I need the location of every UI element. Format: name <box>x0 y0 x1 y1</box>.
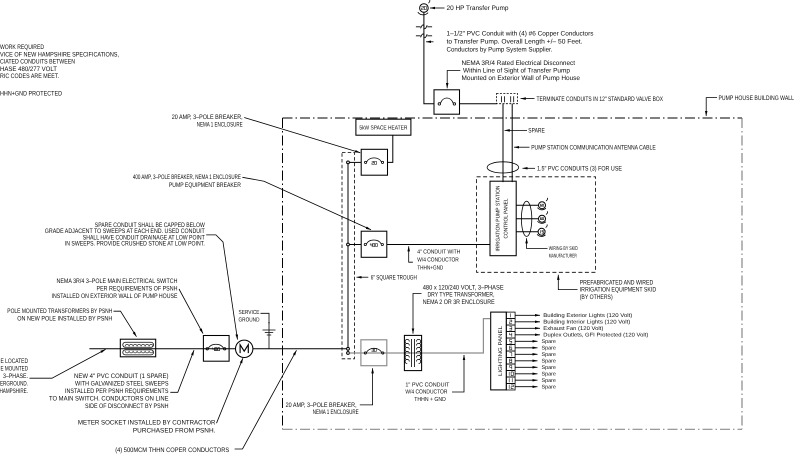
wires panel to pump motors <box>516 205 538 232</box>
label NEW 4" PVC CONDUIT note <box>49 350 194 410</box>
label utility service (cut off at left edge) <box>0 349 106 394</box>
svg-text:IRRIGATION PUMP STATION: IRRIGATION PUMP STATION <box>495 185 501 251</box>
feeder bus in trough <box>347 164 349 352</box>
svg-text:PUMP HOUSE BUILDING WALL: PUMP HOUSE BUILDING WALL <box>719 95 795 102</box>
label WIRING BY SKID MANUFACTURER <box>527 238 578 259</box>
irrigation equipment skid (dashed box) <box>477 177 596 272</box>
svg-text:E LOCATED: E LOCATED <box>1 358 29 365</box>
svg-text:PUMP EQUIPMENT BREAKER: PUMP EQUIPMENT BREAKER <box>169 182 241 189</box>
svg-text:6" SQUARE TROUGH: 6" SQUARE TROUGH <box>371 274 417 281</box>
svg-text:Exhaust Fan (120 Volt): Exhaust Fan (120 Volt) <box>543 326 603 332</box>
svg-text:NEMA 3R/4 Rated Electrical Dis: NEMA 3R/4 Rated Electrical Disconnect <box>462 60 576 67</box>
circuit 5 wire and label (spare) <box>515 339 556 345</box>
conduit break symbol (lower) <box>416 34 432 38</box>
breaker CB1 20A 3-pole <box>361 149 387 175</box>
svg-text:NEMA 3R/4 3–POLE MAIN ELECTRIC: NEMA 3R/4 3–POLE MAIN ELECTRICAL SWITCH <box>57 278 178 285</box>
svg-text:SIDE OF DISCONNECT BY PSNH: SIDE OF DISCONNECT BY PSNH <box>85 403 169 410</box>
circuit 7 wire and label (spare) <box>515 352 556 358</box>
label 6" SQUARE TROUGH <box>357 274 418 281</box>
svg-text:VICE OF NEW HAMPSHIRE SPECIFIC: VICE OF NEW HAMPSHIRE SPECIFICATIONS, <box>0 51 119 58</box>
label NEMA 3R/4 3-POLE MAIN ELECTRICAL SWITCH <box>52 278 204 334</box>
service ground <box>239 309 276 349</box>
label TERMINATE CONDUITS <box>521 96 664 103</box>
circuit breaker cells 1-12 <box>506 312 515 390</box>
label 1-1/2" PVC conduit note <box>426 31 594 54</box>
svg-text:LIGHTING PANEL: LIGHTING PANEL <box>498 326 504 376</box>
svg-text:Within Line of Sight of Transf: Within Line of Sight of Transfer Pump <box>463 68 570 75</box>
svg-text:NEW 4" PVC CONDUIT (1 SPARE): NEW 4" PVC CONDUIT (1 SPARE) <box>74 373 169 380</box>
pole mounted transformer bank T1 <box>120 339 155 357</box>
svg-text:HASE 480/277 VOLT: HASE 480/277 VOLT <box>0 66 57 73</box>
conduit break symbol (upper) <box>416 25 432 29</box>
svg-text:Spare: Spare <box>542 359 556 365</box>
svg-text:PER REQUIREMENTS OF PSNH: PER REQUIREMENTS OF PSNH <box>97 286 178 293</box>
svg-text:NEMA 1 ENCLOSURE: NEMA 1 ENCLOSURE <box>197 122 243 129</box>
pump motor M1 (60 HP) <box>538 198 548 210</box>
svg-text:SPARE: SPARE <box>528 128 545 135</box>
label 20 HP Transfer Pump <box>430 5 509 12</box>
label 1" PVC conduit <box>405 355 464 403</box>
label 4" conduit with W/4 conductor <box>409 246 461 271</box>
circuit 6 wire and label (spare) <box>515 346 556 352</box>
svg-text:Spare: Spare <box>542 352 556 358</box>
svg-text:Building Exterior Lights (120: Building Exterior Lights (120 Volt) <box>543 313 632 319</box>
svg-text:THHN+GND: THHN+GND <box>417 264 443 271</box>
svg-text:480 x 120/240 VOLT, 3–PHASE: 480 x 120/240 VOLT, 3–PHASE <box>423 284 505 291</box>
main service line from utility <box>89 348 346 350</box>
svg-text:POLE MOUNTED TRANSFORMERS BY P: POLE MOUNTED TRANSFORMERS BY PSNH <box>7 308 112 315</box>
valve box (dashed, 12" standard) <box>497 94 518 104</box>
svg-text:20 HP Transfer Pump: 20 HP Transfer Pump <box>447 5 509 12</box>
conduit pair down to control panel <box>502 104 504 182</box>
svg-text:CIATED CONDUITS BETWEEN: CIATED CONDUITS BETWEEN <box>0 59 75 66</box>
wire 400A breaker to control panel <box>387 244 490 246</box>
circuit 12 wire and label (spare) <box>515 385 556 391</box>
svg-text:1.5" PVC CONDUITS (3) FOR USE: 1.5" PVC CONDUITS (3) FOR USE <box>537 166 623 173</box>
svg-text:1" PVC CONDUIT: 1" PVC CONDUIT <box>405 381 449 388</box>
label NEMA 3R/4 rated electrical disconnect <box>447 60 580 88</box>
disconnect switch DS1 <box>434 90 460 114</box>
breaker CB2 400A 3-pole pump equipment breaker <box>361 231 387 257</box>
svg-text:Spare: Spare <box>542 339 556 345</box>
label 20 AMP 3-POLE BREAKER (top) <box>172 114 361 153</box>
terminal node at 20A tap <box>347 161 350 164</box>
circuit 10 wire and label (spare) <box>515 372 556 378</box>
svg-text:PUMP STATION COMMUNICATION ANT: PUMP STATION COMMUNICATION ANTENNA CABLE <box>531 144 656 151</box>
svg-text:NEMA 2 OR 3R ENCLOSURE: NEMA 2 OR 3R ENCLOSURE <box>423 299 496 306</box>
label 480 x 120/240 VOLT transformer <box>413 284 504 333</box>
svg-text:Building Interior Lights (120: Building Interior Lights (120 Volt) <box>543 320 630 326</box>
svg-text:HHN+GND PROTECTED: HHN+GND PROTECTED <box>0 90 62 97</box>
svg-text:NEMA 1 ENCLOSURE: NEMA 1 ENCLOSURE <box>313 409 359 416</box>
label antenna cable <box>514 144 656 151</box>
wire feeder tap to 20A breaker <box>349 161 361 163</box>
svg-text:3–PHASE.: 3–PHASE. <box>3 373 28 380</box>
label 400 AMP 3-POLE BREAKER <box>133 174 371 230</box>
svg-text:PREFABRICATED AND WIRED: PREFABRICATED AND WIRED <box>580 279 654 286</box>
svg-text:Spare: Spare <box>542 372 556 378</box>
svg-text:Spare: Spare <box>542 346 556 352</box>
circuit 3 wire and label <box>515 326 603 332</box>
wire heater to 20A breaker <box>388 135 393 162</box>
svg-text:RIC CODES ARE MEET.: RIC CODES ARE MEET. <box>0 73 59 80</box>
node feeder to 30A tap <box>347 352 350 355</box>
transfer pump P1 (20 HP) <box>418 0 430 15</box>
terminal node at 400A tap <box>347 243 350 246</box>
circuit 4 wire and label <box>515 333 648 339</box>
pump motor M3 (15 HP) <box>537 224 547 236</box>
svg-text:INSTALLED PER PSNH REQUIREMENT: INSTALLED PER PSNH REQUIREMENTS <box>65 388 169 395</box>
6 inch square trough (dashed) <box>342 152 354 358</box>
svg-text:METER SOCKET INSTALLED BY CONT: METER SOCKET INSTALLED BY CONTRACTOR <box>78 420 216 427</box>
svg-text:WORK REQUIRED: WORK REQUIRED <box>0 44 44 51</box>
svg-text:TO MAIN SWITCH. CONDUCTORS ON: TO MAIN SWITCH. CONDUCTORS ON LINE <box>49 396 169 403</box>
circuit 9 wire and label (spare) <box>515 365 556 371</box>
svg-text:Duplex Outlets, GFI Protected: Duplex Outlets, GFI Protected (120 Volt) <box>543 333 648 339</box>
svg-text:Mounted on Exterior Wall of Pu: Mounted on Exterior Wall of Pump House <box>462 75 581 82</box>
svg-text:MANUFACTURER: MANUFACTURER <box>549 253 577 259</box>
svg-text:ON NEW POLE INSTALLED BY PSNH: ON NEW POLE INSTALLED BY PSNH <box>17 315 112 322</box>
breaker CB3 30A (gray box) <box>361 340 387 366</box>
pump house building wall (dash-dot outline) <box>283 118 743 429</box>
conduit grouping ellipse <box>487 162 519 173</box>
svg-text:IN SWEEPS. PROVIDE CRUSHED ST: IN SWEEPS. PROVIDE CRUSHED STONE AT LOW … <box>65 241 205 248</box>
meter M <box>236 340 253 357</box>
circuit 8 wire and label (spare) <box>515 359 556 365</box>
svg-text:5kW SPACE HEATER: 5kW SPACE HEATER <box>359 125 407 132</box>
svg-text:CONTROL PANEL: CONTROL PANEL <box>504 199 510 239</box>
label PREFABRICATED AND WIRED IRRIGATION EQUIPMENT SKID <box>558 275 656 301</box>
general notes text block (cut off at left edge) <box>0 44 119 97</box>
label 20 AMP 3-POLE BREAKER (bottom) <box>286 368 373 416</box>
svg-text:(4) 500MCM THHN COPER CONDUCTO: (4) 500MCM THHN COPER CONDUCTORS <box>115 447 230 454</box>
svg-text:GROUND: GROUND <box>239 317 260 324</box>
svg-text:WIRING BY SKID: WIRING BY SKID <box>549 246 578 252</box>
svg-text:WITH GALVANIZED STEEL SWEEPS: WITH GALVANIZED STEEL SWEEPS <box>75 381 169 388</box>
wire from transfer pump down to disconnect <box>424 12 434 104</box>
svg-text:DRY TYPE TRANSFORMER,: DRY TYPE TRANSFORMER, <box>428 292 495 299</box>
svg-text:PURCHASED FROM PSNH.: PURCHASED FROM PSNH. <box>133 428 216 435</box>
svg-text:E MOUNTED: E MOUNTED <box>1 365 29 372</box>
wire feeder tap to 400A breaker <box>349 244 361 246</box>
label SPARE CONDUIT note <box>45 222 238 340</box>
label (4) 500MCM conductors <box>115 350 296 454</box>
svg-text:(BY OTHERS): (BY OTHERS) <box>580 294 613 301</box>
svg-text:SERVICE: SERVICE <box>239 309 260 316</box>
circuit 11 wire and label (spare) <box>515 378 556 384</box>
gray wire 30A breaker through transformer to lighting panel <box>349 319 490 353</box>
svg-text:HAMPSHIRE.: HAMPSHIRE. <box>0 388 28 395</box>
svg-text:W/4 CONDUCTOR: W/4 CONDUCTOR <box>405 389 447 396</box>
svg-text:Spare: Spare <box>542 385 556 391</box>
svg-text:IRRIGATION EQUIPMENT SKID: IRRIGATION EQUIPMENT SKID <box>580 287 657 294</box>
svg-text:Conductors by Pump System Supp: Conductors by Pump System Supplier. <box>447 47 553 54</box>
svg-text:Spare: Spare <box>542 378 556 384</box>
svg-text:TERMINATE CONDUITS IN 12" STAN: TERMINATE CONDUITS IN 12" STANDARD VALVE… <box>537 96 664 103</box>
svg-text:to Transfer Pump. Overall Len: to Transfer Pump. Overall Length +/– 50 … <box>447 39 583 46</box>
svg-text:1–1/2" PVC Conduit with (4) #6: 1–1/2" PVC Conduit with (4) #6 Copper Co… <box>447 31 595 38</box>
svg-text:20 AMP, 3–POLE BREAKER,: 20 AMP, 3–POLE BREAKER, <box>286 402 357 409</box>
dry type transformer T2 <box>404 335 421 370</box>
svg-text:INSTALLED ON EXTERIOR WALL OF: INSTALLED ON EXTERIOR WALL OF PUMP HOUSE <box>52 293 179 300</box>
wire disconnect to valve box <box>460 103 497 105</box>
svg-text:ERGROUND.: ERGROUND. <box>0 380 28 387</box>
lighting panel LP <box>491 312 507 390</box>
main switch SW1 480V <box>203 336 229 362</box>
svg-text:THHN + GND: THHN + GND <box>414 396 446 403</box>
label SPARE conduit <box>505 128 546 135</box>
irrigation pump station control panel U1 <box>490 181 516 256</box>
svg-text:4" CONDUIT WITH: 4" CONDUIT WITH <box>417 248 460 255</box>
label 1.5" PVC conduits <box>523 166 623 173</box>
label POLE MOUNTED TRANSFORMERS <box>7 308 136 337</box>
pump motor M2 (60 HP) <box>538 211 548 223</box>
label PUMP HOUSE BUILDING WALL <box>706 95 794 116</box>
circuit 2 wire and label <box>515 320 630 326</box>
space heater HTR1 <box>356 119 411 135</box>
node main line to feeder <box>347 347 350 350</box>
svg-text:400 AMP, 3–POLE BREAKER, NEMA: 400 AMP, 3–POLE BREAKER, NEMA 1 ENCLOSUR… <box>133 174 241 181</box>
svg-text:20 AMP, 3–POLE BREAKER,: 20 AMP, 3–POLE BREAKER, <box>172 114 243 121</box>
svg-text:Spare: Spare <box>542 365 556 371</box>
label METER SOCKET <box>78 358 243 434</box>
wiring lens ellipse <box>521 201 531 236</box>
circuit 1 wire and label <box>515 313 632 319</box>
svg-text:W/4 CONDUCTOR: W/4 CONDUCTOR <box>417 256 459 263</box>
